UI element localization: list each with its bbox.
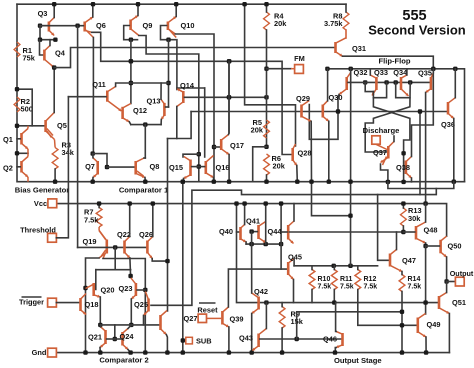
wire Q3 emitter to rail xyxy=(53,4,55,17)
wire Q14 coll down xyxy=(176,107,178,139)
wire Q6 base row xyxy=(40,25,83,27)
junction x425 vcc xyxy=(423,201,427,205)
wire Q10 base loop xyxy=(161,26,176,40)
junction x420 base line xyxy=(418,109,422,113)
wire FF right inner jog xyxy=(396,82,410,97)
svg-text:Q45: Q45 xyxy=(288,253,302,262)
wire Q43 coll up xyxy=(265,303,267,329)
wire R5R6 tap xyxy=(253,147,267,182)
junction Q16 gnd xyxy=(212,180,216,184)
junction Q8 gnd xyxy=(143,180,147,184)
wire Q13 emitter down xyxy=(160,120,162,125)
wire FM lead orange xyxy=(291,68,295,70)
wire Q4 emitter across xyxy=(54,48,335,68)
svg-text:7.5k: 7.5k xyxy=(364,284,378,291)
junction Q46 gnd xyxy=(333,350,337,354)
transistor Q44 xyxy=(287,225,290,240)
svg-text:Q16: Q16 xyxy=(216,163,230,172)
junction Q21 gnd xyxy=(98,350,102,354)
wire Q8 emitter xyxy=(144,178,146,182)
wire Q3 base row xyxy=(40,25,48,27)
wire Q26 coll up xyxy=(152,204,154,237)
wire mirror tie xyxy=(93,154,107,168)
wire Q15 coll link xyxy=(183,154,199,157)
wire Q32 coll xyxy=(350,69,352,73)
wire Q25 base line long xyxy=(151,189,436,306)
wire Q45 em down xyxy=(293,280,295,303)
transistor Q11 xyxy=(106,91,109,102)
junction x236 vcc xyxy=(234,201,238,205)
junction Q43 base tie xyxy=(295,337,299,341)
resistor R4 xyxy=(264,12,270,30)
node row x265 xyxy=(264,242,268,246)
junction Q17 y61 xyxy=(227,59,231,63)
svg-text:20k: 20k xyxy=(251,126,264,135)
wire Q25 em down xyxy=(143,316,145,325)
transistor Q23 xyxy=(135,283,138,296)
transistor Q12 xyxy=(121,107,124,119)
wire Q23 base stub xyxy=(137,289,145,291)
junction y61 x229b xyxy=(227,59,231,63)
junction res line x350 xyxy=(348,264,352,268)
wire R13 bottom xyxy=(402,226,404,232)
node SUB xyxy=(181,338,185,342)
wire SUB line xyxy=(182,182,184,353)
junction Q9 rail xyxy=(136,2,140,6)
node Q37 em join xyxy=(401,151,405,155)
transistor Q1 xyxy=(20,133,23,145)
wire Q32 emitter down xyxy=(309,95,339,140)
svg-text:Q23: Q23 xyxy=(119,284,133,293)
wire Q26 emitter xyxy=(152,259,167,262)
resistor R1 xyxy=(14,42,20,57)
node Q23 base xyxy=(143,288,147,292)
wire Q39 emitter xyxy=(228,327,230,353)
junction res line x333 xyxy=(332,264,336,268)
wire FF left outer jog xyxy=(365,82,373,91)
node Q21Q24 base xyxy=(113,337,117,341)
transistor Q16 xyxy=(205,161,208,174)
svg-text:Q20: Q20 xyxy=(101,286,115,295)
node Q6coll2 Q7 xyxy=(91,151,95,155)
node Q41 base xyxy=(249,229,253,233)
svg-text:Q47: Q47 xyxy=(402,256,416,265)
svg-text:Q14: Q14 xyxy=(180,81,195,90)
wire Q43 base line xyxy=(260,338,342,340)
svg-text:Comparator 2: Comparator 2 xyxy=(99,356,148,365)
resistor R9 xyxy=(279,307,285,328)
svg-text:Output Stage: Output Stage xyxy=(334,356,382,365)
svg-text:20k: 20k xyxy=(274,19,287,28)
wire emitters down to Q8 xyxy=(144,125,146,158)
wire y269 jog xyxy=(96,269,131,271)
junction FF rail x350 xyxy=(349,67,353,71)
svg-text:Q13: Q13 xyxy=(147,97,161,106)
junction Q26em gnd x145 cross xyxy=(144,324,146,326)
svg-text:Comparator 1: Comparator 1 xyxy=(119,186,169,195)
wire flip-flop rail and right rail xyxy=(327,69,464,182)
wire output lead xyxy=(447,281,456,283)
wire Q15 emitter xyxy=(182,179,185,182)
wire Q13 base stub xyxy=(166,106,169,108)
svg-text:Q46: Q46 xyxy=(323,335,337,344)
transistor Q3 xyxy=(48,22,51,32)
junction x350 gnd rail xyxy=(348,180,352,184)
junction Q10 line y83 xyxy=(166,81,170,85)
svg-text:Q37: Q37 xyxy=(373,148,387,157)
transistor Q41 xyxy=(257,225,260,239)
transistor Q46 xyxy=(341,333,344,346)
transistor Q45 xyxy=(287,262,290,275)
svg-text:Second Version: Second Version xyxy=(368,23,466,38)
junction x403 gnd xyxy=(401,180,405,184)
svg-text:Gnd: Gnd xyxy=(32,348,47,357)
junction Q10 rail xyxy=(174,2,178,6)
node Q1 Q2 link xyxy=(15,151,19,155)
junction Q37 gnd xyxy=(386,180,390,184)
wire Q45 coll up xyxy=(293,259,295,266)
overline trigger xyxy=(22,296,42,298)
wire Q20 base drop xyxy=(94,270,97,290)
junction FF rail x327 xyxy=(325,67,329,71)
wire Q38 coll up xyxy=(412,69,434,157)
junction Q28 gnd xyxy=(295,180,299,184)
wire Q15 base xyxy=(192,166,199,168)
transistor Q32 xyxy=(345,77,348,90)
junction Q39 gnd xyxy=(227,350,231,354)
wire Q27 emitter xyxy=(166,335,167,353)
node emitters xyxy=(143,122,147,126)
wire Q7Q8 base xyxy=(107,166,135,168)
wire comp1 out to Q36 base xyxy=(191,111,447,113)
resistor R7 xyxy=(96,208,102,228)
wire Q19 em1 xyxy=(86,258,100,353)
node FF row x365 xyxy=(363,80,367,84)
junction Q9 line y61 xyxy=(129,59,133,63)
node output xyxy=(444,279,448,283)
svg-text:Q19: Q19 xyxy=(83,237,97,246)
wire R14 top stub xyxy=(401,272,403,275)
svg-text:Q1: Q1 xyxy=(3,135,13,144)
wire left rail and mid gnd rail xyxy=(17,4,465,182)
svg-text:7.5k: 7.5k xyxy=(84,216,99,225)
wire Q4 coll up xyxy=(49,40,51,46)
wire threshold lead xyxy=(56,97,68,238)
node Q10 tie xyxy=(166,38,170,42)
wire FF base row xyxy=(348,81,430,83)
wire R13 top xyxy=(402,204,404,208)
node Q48em Q50base xyxy=(423,244,427,248)
node row x281 xyxy=(279,242,283,246)
wire Q42 em down xyxy=(251,314,253,353)
svg-text:Trigger: Trigger xyxy=(19,298,44,307)
node x199 y154 xyxy=(197,152,201,156)
resistor R13 xyxy=(401,208,407,226)
terminal Reset xyxy=(198,314,206,322)
wire Q9 collector path xyxy=(139,36,199,182)
svg-text:Q49: Q49 xyxy=(427,320,441,329)
junction x402 gnd xyxy=(400,350,404,354)
junction x350 y215 xyxy=(348,214,352,218)
junction Q15 gnd xyxy=(181,180,185,184)
wire Q38 emitter xyxy=(411,178,413,182)
transistor Q5 xyxy=(44,120,47,132)
junction Q49 gnd xyxy=(424,350,428,354)
svg-text:20k: 20k xyxy=(273,162,286,171)
svg-text:Q5: Q5 xyxy=(57,121,67,130)
wire R9 bottom xyxy=(281,328,283,353)
node Q3 base xyxy=(38,24,42,28)
wire R10 top xyxy=(311,266,313,270)
svg-text:Q30: Q30 xyxy=(329,93,343,102)
wire R3 to gnd xyxy=(54,169,56,182)
wire Q7 coll xyxy=(92,154,94,158)
svg-text:75k: 75k xyxy=(23,54,36,63)
junction Q26em x167 xyxy=(165,259,169,263)
junction rail x266 xyxy=(264,300,268,304)
wire reset lead xyxy=(207,317,221,319)
node Q17 base xyxy=(212,145,216,149)
wire Q24 em xyxy=(128,350,131,353)
transistor Q37 xyxy=(387,146,390,159)
wire Q7 emitter xyxy=(92,178,94,182)
wire Q23 em down xyxy=(130,299,132,325)
wire bottom gnd rail xyxy=(56,352,449,354)
wire Q50 base xyxy=(426,245,440,247)
wire Q21 base stub xyxy=(107,338,116,340)
wire Q5 base xyxy=(17,125,44,127)
transistor Q19 xyxy=(106,240,109,254)
wire Q19 em2 xyxy=(103,259,145,353)
svg-text:SUB: SUB xyxy=(196,337,212,346)
transistor Q51 xyxy=(438,296,441,309)
transistor Q49 xyxy=(416,318,419,334)
svg-text:Vcc: Vcc xyxy=(34,199,47,208)
wire FF cross left col and diag xyxy=(373,92,410,182)
wire Q4 base xyxy=(40,40,44,55)
wire Q13 coll up xyxy=(160,83,162,99)
svg-text:Q48: Q48 xyxy=(424,226,438,235)
svg-text:Q3: Q3 xyxy=(38,9,48,18)
wire Q31 emitter to FF xyxy=(343,56,434,69)
transistor Q30 xyxy=(321,105,324,118)
transistor Q9 xyxy=(129,20,132,31)
junction R13 vcc xyxy=(401,201,405,205)
wire Q40 em xyxy=(245,242,247,244)
transistor Q22 xyxy=(123,241,126,254)
wire Q48 base xyxy=(403,231,414,233)
wire Q50 emitter down xyxy=(446,257,448,282)
junction Q3 rail xyxy=(52,2,56,6)
transistor Q33 xyxy=(375,77,378,90)
wire x265 column xyxy=(265,204,267,245)
wire Q1-Q2 link xyxy=(17,152,28,154)
transistor Q25 xyxy=(147,299,150,312)
transistor Q42 xyxy=(257,297,260,310)
wire stairs2 Q47 base drop xyxy=(378,195,389,261)
wire Q48 coll up xyxy=(425,204,427,222)
junction x145 gnd xyxy=(143,350,147,354)
junction R5 R6 xyxy=(264,145,268,149)
svg-text:Q27: Q27 xyxy=(184,314,198,323)
wire R7 to Q19 coll xyxy=(98,227,100,231)
svg-text:Q28: Q28 xyxy=(298,149,312,158)
transistor Q26 xyxy=(146,241,149,254)
wire Q10 coll1 path xyxy=(175,34,214,182)
transistor Q13 xyxy=(163,103,166,116)
transistor Q2 xyxy=(20,161,23,173)
wire Q6 coll1 path xyxy=(92,32,292,154)
wire Q12 emitter down xyxy=(129,122,131,125)
resistor R12 xyxy=(355,270,361,290)
transistor Q27 xyxy=(159,315,162,330)
wire Q3 base down jog xyxy=(40,26,55,40)
wire Q41 base tie xyxy=(251,232,253,245)
node Q6 base xyxy=(75,24,79,28)
wire Q44 coll up xyxy=(293,204,295,221)
wire mirror tie xyxy=(114,325,116,339)
terminal Threshold xyxy=(48,233,57,242)
svg-text:Q29: Q29 xyxy=(296,94,310,103)
wire R8 stub xyxy=(345,4,347,12)
wire Q29 emitter down xyxy=(311,121,350,215)
wire Q6 coll2 down xyxy=(92,38,94,154)
wire R11 bottom xyxy=(333,290,335,303)
wire Q21 coll xyxy=(99,325,101,327)
wire Q39 coll to Q45 base xyxy=(228,269,287,307)
wire Q35 coll xyxy=(432,69,434,73)
wire R7 top xyxy=(98,204,100,208)
svg-text:Discharge: Discharge xyxy=(363,126,400,135)
wire Q36 coll up xyxy=(454,69,456,98)
wire stairs1 xyxy=(388,182,454,189)
wire Q22 emitter down xyxy=(129,258,132,276)
wire Q49 emitter down xyxy=(425,337,427,353)
wire x350 long column xyxy=(350,69,352,266)
svg-text:Output: Output xyxy=(450,269,474,278)
svg-text:Bias Generator: Bias Generator xyxy=(15,186,69,195)
wire Q21 em xyxy=(99,348,101,353)
wire R14 bottom xyxy=(401,292,403,353)
wire Q16 emitter xyxy=(213,178,215,182)
resistor R10 xyxy=(309,270,315,290)
wire x168 long xyxy=(167,139,169,312)
node Q22em Q23coll xyxy=(128,274,132,278)
wire Q2 base stub xyxy=(17,166,20,168)
node Q5 base rail xyxy=(15,124,19,128)
junction Q42 gnd xyxy=(250,350,254,354)
junction Q17 gnd xyxy=(227,180,231,184)
terminal Trigger xyxy=(48,298,57,307)
transistor Q34 xyxy=(400,77,403,90)
wire FM lead xyxy=(267,68,292,70)
svg-text:Q18: Q18 xyxy=(85,300,99,309)
wire R2 bypass xyxy=(17,89,32,126)
wire R12 bottom to Q49 base line xyxy=(358,290,417,326)
svg-text:Q51: Q51 xyxy=(452,298,466,307)
transistor Q8 xyxy=(134,161,137,175)
junction Q22 vcc xyxy=(128,201,132,205)
transistor Q36 xyxy=(447,102,450,115)
svg-text:Q12: Q12 xyxy=(133,106,147,115)
svg-text:Q24: Q24 xyxy=(120,332,135,341)
wire Q10 coll2 down xyxy=(176,40,178,90)
resistor R5 xyxy=(264,120,270,138)
wire Q22 coll up xyxy=(129,204,131,237)
wire FF cross right col and diag xyxy=(365,82,410,152)
junction FF rail x433 xyxy=(431,67,435,71)
svg-text:Q11: Q11 xyxy=(92,80,106,89)
wire Q20 em down xyxy=(99,297,101,325)
transistor Q43 xyxy=(257,334,260,348)
wire Q6 emitter to rail xyxy=(92,4,94,17)
transistor Q7 xyxy=(96,161,99,175)
wire Q42 coll up xyxy=(251,244,253,293)
wire Q40 coll up xyxy=(244,204,246,225)
wire Q45 base xyxy=(280,244,282,269)
transistor Q48 xyxy=(415,226,418,240)
wire Q14 base line xyxy=(185,96,267,98)
wire top Vcc rail xyxy=(17,3,346,5)
wire Q28 emitter xyxy=(296,166,299,182)
svg-text:Q15: Q15 xyxy=(169,163,183,172)
resistor R11 xyxy=(331,270,337,290)
svg-text:3.75k: 3.75k xyxy=(324,19,343,28)
wire Q37 emitter xyxy=(381,164,388,182)
junction R6 gnd xyxy=(264,180,268,184)
wire output stage base rail xyxy=(237,204,438,303)
wire mirror row xyxy=(246,243,281,245)
wire Q38 base stub xyxy=(404,166,405,168)
node FF row x386 xyxy=(384,80,388,84)
wire Q8 coll xyxy=(144,157,145,159)
node row x251 xyxy=(249,242,253,246)
wire Q19 base line xyxy=(78,246,147,248)
wire Q6 base tie long down xyxy=(77,26,79,248)
svg-text:FM: FM xyxy=(294,54,305,63)
terminal Vcc xyxy=(48,199,57,208)
wire Q24 base stub xyxy=(115,338,122,340)
wire mid link xyxy=(297,312,402,339)
wire x281 column xyxy=(280,204,282,245)
svg-text:Q22: Q22 xyxy=(117,230,131,239)
junction rail-R2bypass xyxy=(15,87,19,91)
node mirror L xyxy=(98,323,102,327)
terminal Discharge xyxy=(372,136,380,144)
junction Q32em y111 xyxy=(336,109,340,113)
svg-text:Q34: Q34 xyxy=(393,68,408,77)
transistor Q31 xyxy=(334,42,337,53)
wire R10 bottom xyxy=(311,290,313,303)
svg-text:Q36: Q36 xyxy=(441,120,455,129)
junction base line x229 xyxy=(227,95,231,99)
junction R3 gnd xyxy=(53,180,57,184)
junction base line x266 xyxy=(264,95,268,99)
junction R13 Q48 xyxy=(401,230,405,234)
resistor R2 xyxy=(14,97,20,112)
wire Q47 coll up xyxy=(396,232,398,250)
junction Q18 gnd xyxy=(83,350,87,354)
wire Q51 emitter down xyxy=(448,314,450,353)
wire res top line xyxy=(294,265,378,267)
svg-text:Q25: Q25 xyxy=(134,300,148,309)
wire x420 tie xyxy=(419,112,421,195)
wire Q41 base xyxy=(252,231,258,233)
transistor Q50 xyxy=(439,240,442,254)
svg-text:Q44: Q44 xyxy=(268,227,283,236)
junction Q36em gnd xyxy=(452,180,456,184)
node FF row x410 xyxy=(408,80,412,84)
